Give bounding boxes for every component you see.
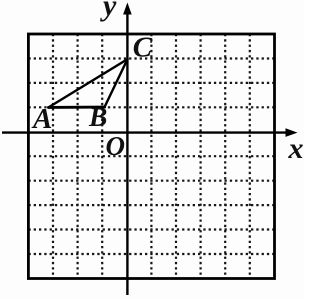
svg-text:x: x <box>288 132 304 165</box>
svg-text:C: C <box>133 32 153 64</box>
svg-text:A: A <box>31 103 52 135</box>
svg-text:O: O <box>106 131 126 161</box>
svg-text:B: B <box>88 101 107 132</box>
svg-text:y: y <box>100 0 117 22</box>
